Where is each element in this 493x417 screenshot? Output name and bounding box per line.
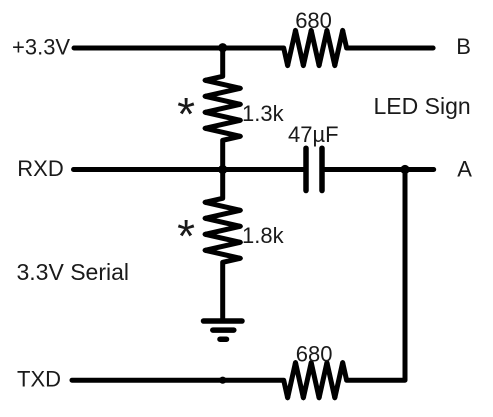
svg-text:47µF: 47µF — [288, 122, 339, 147]
svg-text:*: * — [177, 210, 195, 262]
svg-text:RXD: RXD — [17, 156, 63, 181]
svg-text:1.8k: 1.8k — [242, 223, 285, 248]
svg-text:+3.3V: +3.3V — [12, 35, 70, 60]
svg-text:680: 680 — [296, 341, 333, 366]
svg-text:1.3k: 1.3k — [242, 101, 285, 126]
svg-text:LED Sign: LED Sign — [374, 93, 471, 119]
svg-text:*: * — [177, 88, 195, 140]
svg-text:B: B — [456, 34, 471, 59]
svg-text:TXD: TXD — [17, 366, 61, 391]
svg-text:A: A — [457, 157, 472, 182]
svg-text:680: 680 — [295, 8, 332, 33]
svg-text:3.3V Serial: 3.3V Serial — [17, 259, 130, 285]
